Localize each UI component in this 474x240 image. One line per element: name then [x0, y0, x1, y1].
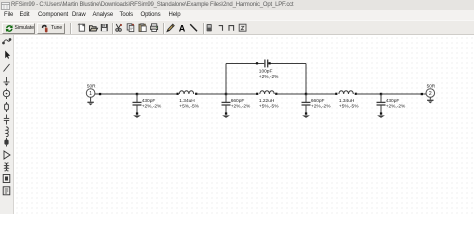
port 2: [426, 89, 435, 100]
svg-text:+2%,-2%: +2%,-2%: [231, 103, 251, 109]
svg-text:660pF: 660pF: [311, 98, 325, 104]
inductor L1 1.34uH: [179, 91, 193, 94]
capacitor C5 100pF series (top): [265, 60, 268, 68]
svg-text:+5%,-5%: +5%,-5%: [339, 103, 359, 109]
tool: select cursor: [5, 51, 10, 59]
capacitor C2 660pF shunt: [222, 94, 231, 115]
tool: transformer: [5, 163, 9, 171]
tool: resistor: [5, 102, 9, 112]
tool: draw line: [4, 64, 10, 72]
canvas: [14, 35, 474, 214]
tool: wire segments: [3, 39, 11, 44]
wire L1 to node J2: [195, 93, 226, 95]
ground under C3: [302, 115, 310, 118]
tool: ground: [4, 77, 10, 86]
tune button: [37, 23, 65, 34]
capacitor C1 430pF shunt: [133, 94, 142, 115]
toolbar: [0, 20, 474, 35]
svg-text:+2%,-2%: +2%,-2%: [259, 74, 279, 80]
sidebar: [0, 35, 14, 214]
svg-text:50R: 50R: [87, 83, 96, 88]
svg-text:+5%,-5%: +5%,-5%: [259, 103, 279, 109]
inductor L3 1.34uH: [339, 91, 353, 94]
wire top branch right horizontal: [268, 62, 306, 64]
capacitor C4 430pF shunt: [377, 94, 386, 115]
toolbar separator 1: [70, 23, 72, 34]
svg-text:+2%,-2%: +2%,-2%: [311, 103, 331, 109]
wire L2 to node J3: [275, 93, 306, 95]
tool: inductor: [6, 127, 8, 137]
port 1 ground: [87, 102, 93, 105]
svg-text:1: 1: [89, 91, 92, 97]
svg-text:1.22uH: 1.22uH: [259, 98, 275, 104]
svg-text:430pF: 430pF: [386, 98, 400, 104]
wire J3 to L3: [306, 93, 337, 95]
toolbar icons group (component tools): [205, 23, 249, 33]
wire J1 to L1: [137, 93, 179, 95]
svg-text:+2%,-2%: +2%,-2%: [142, 103, 162, 109]
app icon: [1, 2, 10, 10]
ground under C2: [222, 115, 230, 118]
ground under C1: [133, 115, 141, 118]
wire top branch right vertical: [305, 64, 307, 95]
tool: capacitor: [4, 115, 9, 125]
svg-text:430pF: 430pF: [142, 98, 156, 104]
capacitor C3 660pF shunt: [302, 94, 311, 115]
toolbar icons group (pencil / A / line): [166, 23, 200, 33]
port 2 ground: [427, 100, 433, 103]
port 1: [86, 89, 95, 102]
svg-text:2: 2: [429, 91, 432, 97]
menu bar: [0, 10, 474, 20]
simulate button: [2, 23, 35, 34]
tool: port: [3, 89, 9, 100]
wire port1 to node J1: [95, 93, 137, 95]
svg-text:50R: 50R: [427, 83, 436, 88]
svg-text:1.34uH: 1.34uH: [339, 98, 355, 104]
toolbar icons group (new/open/save): [77, 23, 111, 33]
node J3 junction: [305, 93, 307, 95]
toolbar separator 3: [203, 23, 205, 34]
tool: amplifier: [4, 151, 10, 159]
node J2 junction: [225, 93, 227, 95]
svg-text:100pF: 100pF: [259, 69, 273, 75]
SCHEMATIC: [86, 60, 434, 118]
svg-text:1.34uH: 1.34uH: [179, 98, 195, 104]
toolbar separator 2: [163, 23, 165, 34]
title bar: [0, 0, 474, 10]
wire top branch left vertical: [225, 64, 227, 95]
toolbar icons group (cut copy paste print): [114, 23, 161, 33]
node J1 junction: [136, 93, 138, 95]
tool: black box: [3, 175, 10, 183]
wire J4 to port 2: [381, 93, 426, 95]
svg-text:+5%,-5%: +5%,-5%: [179, 103, 199, 109]
node J4 junction: [380, 93, 382, 95]
ground under C4: [377, 115, 385, 118]
tool: s-parameter block: [3, 187, 10, 195]
svg-text:660pF: 660pF: [231, 98, 245, 104]
toolbar separator 1b: [112, 23, 114, 34]
wire L3 to node J4: [355, 93, 381, 95]
svg-text:+2%,-2%: +2%,-2%: [386, 103, 406, 109]
wire top branch left horizontal: [226, 62, 264, 64]
inductor L2 1.22uH: [260, 91, 274, 94]
tool: diode component: [4, 138, 8, 147]
wire J2 to L2: [226, 93, 258, 95]
